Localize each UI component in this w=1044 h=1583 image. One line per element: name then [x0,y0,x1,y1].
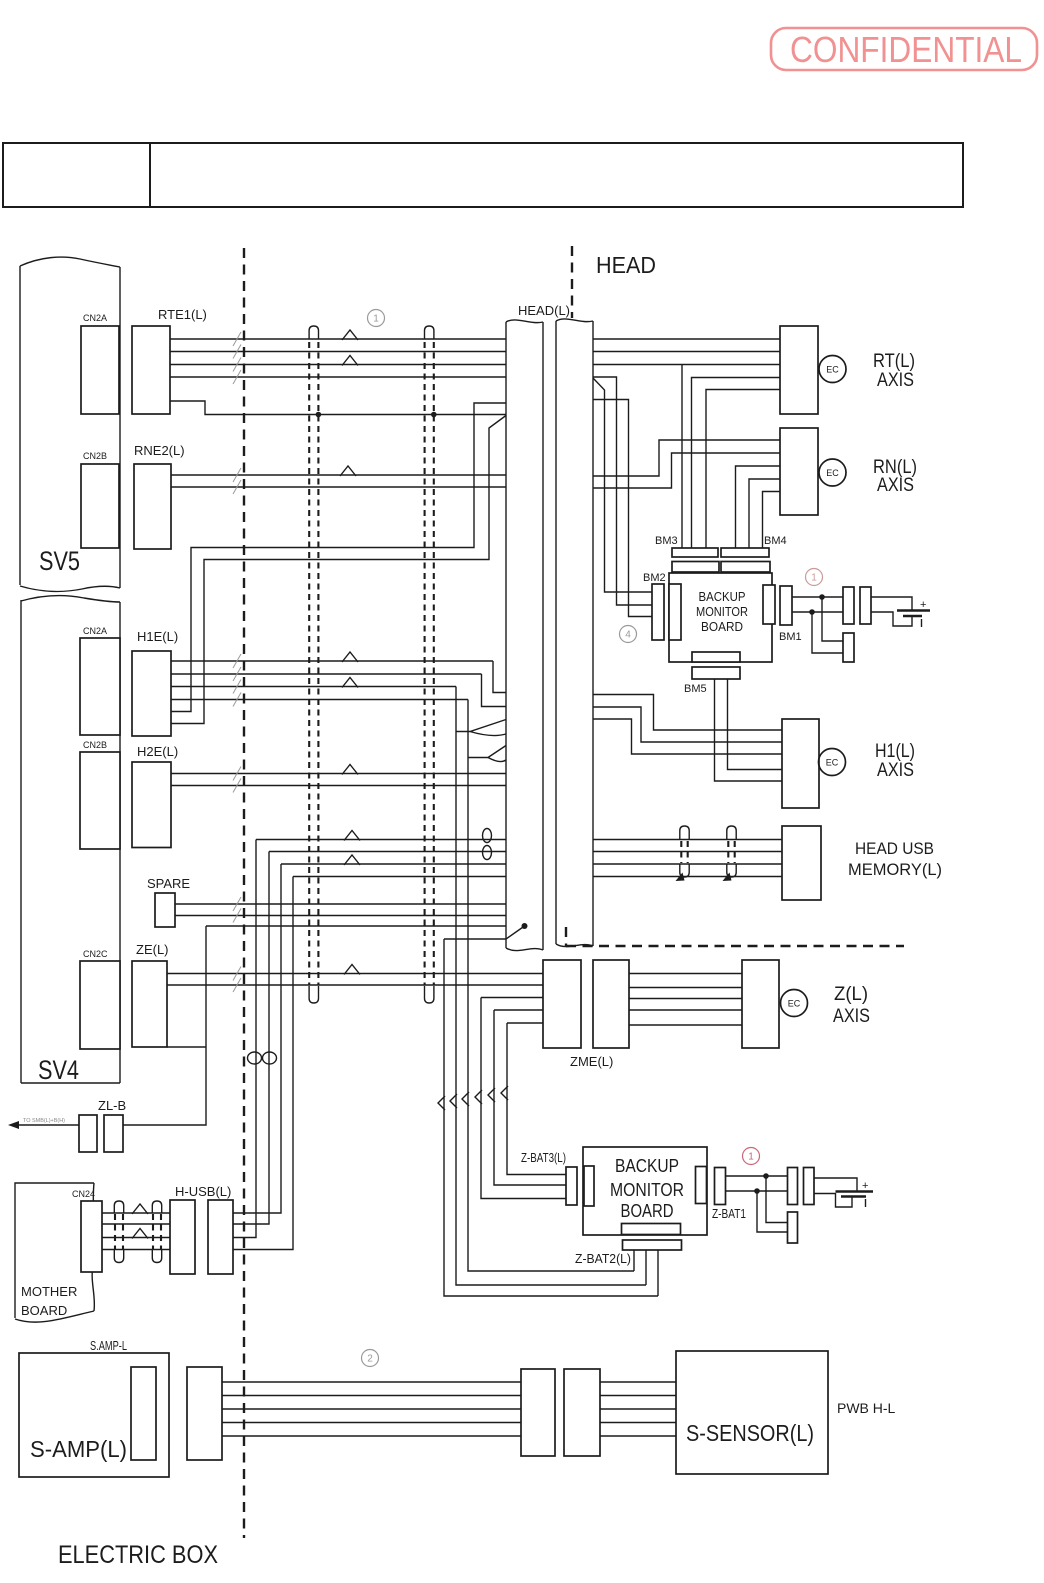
svg-text:RTE1(L): RTE1(L) [158,307,207,322]
svg-text:ELECTRIC BOX: ELECTRIC BOX [58,1541,218,1569]
svg-text:BOARD: BOARD [701,620,743,634]
svg-text:+: + [862,1180,868,1192]
svg-text:CONFIDENTIAL: CONFIDENTIAL [790,29,1022,70]
svg-text:BOARD: BOARD [21,1303,67,1318]
svg-text:EC: EC [826,365,839,375]
svg-text:EC: EC [788,999,801,1009]
svg-text:Z-BAT1: Z-BAT1 [712,1207,746,1221]
svg-text:RNE2(L): RNE2(L) [134,443,185,458]
svg-text:EC: EC [826,758,839,768]
svg-text:1: 1 [748,1152,754,1163]
svg-text:ZE(L): ZE(L) [136,942,169,957]
svg-text:TO SMB(L)+B(H): TO SMB(L)+B(H) [23,1118,65,1124]
svg-text:BOARD: BOARD [621,1201,674,1221]
svg-text:ZL-B: ZL-B [98,1098,126,1113]
svg-text:Z-BAT2(L): Z-BAT2(L) [575,1252,631,1266]
svg-text:HEAD: HEAD [596,252,656,278]
svg-text:1: 1 [373,314,379,325]
svg-text:CN2C: CN2C [83,949,108,959]
svg-text:SV5: SV5 [39,546,80,576]
svg-text:Z(L): Z(L) [834,984,868,1005]
svg-text:CN2A: CN2A [83,313,107,323]
svg-text:1: 1 [811,573,817,584]
svg-text:H1(L): H1(L) [875,741,915,762]
svg-text:BM5: BM5 [684,683,707,695]
svg-text:RT(L): RT(L) [873,351,915,372]
svg-text:AXIS: AXIS [877,475,914,496]
svg-text:CN24: CN24 [72,1189,95,1199]
svg-text:BACKUP: BACKUP [699,590,746,604]
svg-text:ZME(L): ZME(L) [570,1054,613,1069]
svg-text:4: 4 [625,630,631,641]
svg-text:2: 2 [367,1354,373,1365]
svg-text:AXIS: AXIS [877,760,914,781]
svg-text:Z-BAT3(L): Z-BAT3(L) [521,1151,566,1165]
svg-text:S-AMP(L): S-AMP(L) [30,1436,127,1462]
svg-text:AXIS: AXIS [877,370,914,391]
svg-text:CN2B: CN2B [83,740,107,750]
svg-text:SV4: SV4 [38,1055,79,1085]
svg-text:H-USB(L): H-USB(L) [175,1184,231,1199]
svg-text:AXIS: AXIS [833,1006,870,1027]
svg-text:S-SENSOR(L): S-SENSOR(L) [686,1420,814,1446]
svg-text:H2E(L): H2E(L) [137,744,178,759]
svg-text:BM4: BM4 [764,535,787,547]
svg-text:HEAD(L): HEAD(L) [518,303,570,318]
svg-text:S.AMP-L: S.AMP-L [90,1339,127,1353]
svg-text:BACKUP: BACKUP [615,1156,679,1176]
svg-text:HEAD USB: HEAD USB [855,839,934,858]
svg-text:CN2B: CN2B [83,451,107,461]
svg-text:MONITOR: MONITOR [610,1180,684,1200]
svg-text:CN2A: CN2A [83,626,107,636]
svg-text:BM3: BM3 [655,535,678,547]
svg-text:+: + [920,599,926,611]
svg-text:MEMORY(L): MEMORY(L) [848,860,942,879]
svg-text:BM2: BM2 [643,572,666,584]
svg-text:SPARE: SPARE [147,876,190,891]
svg-text:H1E(L): H1E(L) [137,629,178,644]
svg-text:MONITOR: MONITOR [696,605,748,619]
svg-text:MOTHER: MOTHER [21,1284,77,1299]
svg-text:PWB H-L: PWB H-L [837,1400,896,1416]
svg-text:EC: EC [826,468,839,478]
svg-text:BM1: BM1 [779,631,802,643]
